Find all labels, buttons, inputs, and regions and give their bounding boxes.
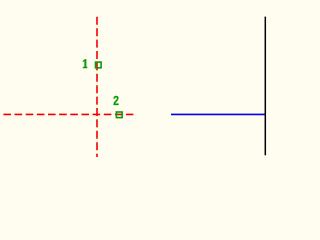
node 1 marker (96, 62, 102, 68)
node 2 marker (116, 112, 122, 118)
node 1 label (83, 59, 88, 68)
wire: horizontal red dashed construction line (3, 113, 133, 115)
wire: black vertical line (264, 17, 266, 156)
wire: vertical red dashed construction line (96, 17, 98, 157)
node 2 label (113, 97, 118, 105)
wire: blue horizontal line (171, 113, 266, 115)
